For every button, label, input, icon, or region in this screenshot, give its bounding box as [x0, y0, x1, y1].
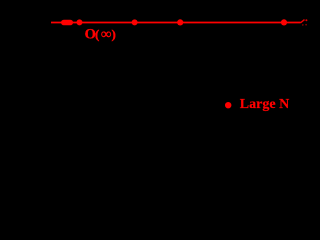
node A: [61, 20, 73, 26]
node D: [177, 19, 183, 25]
wire: [301, 20, 305, 23]
node F: [305, 19, 307, 21]
svg-text:Large N: Large N: [240, 97, 289, 112]
svg-text:): ): [112, 26, 116, 41]
wire: [51, 22, 301, 24]
node B: [77, 19, 83, 25]
svg-text:(: (: [95, 26, 99, 41]
legend marker: [225, 102, 231, 108]
node E: [281, 19, 287, 25]
svg-text:∞: ∞: [101, 26, 111, 42]
node C: [132, 19, 138, 25]
